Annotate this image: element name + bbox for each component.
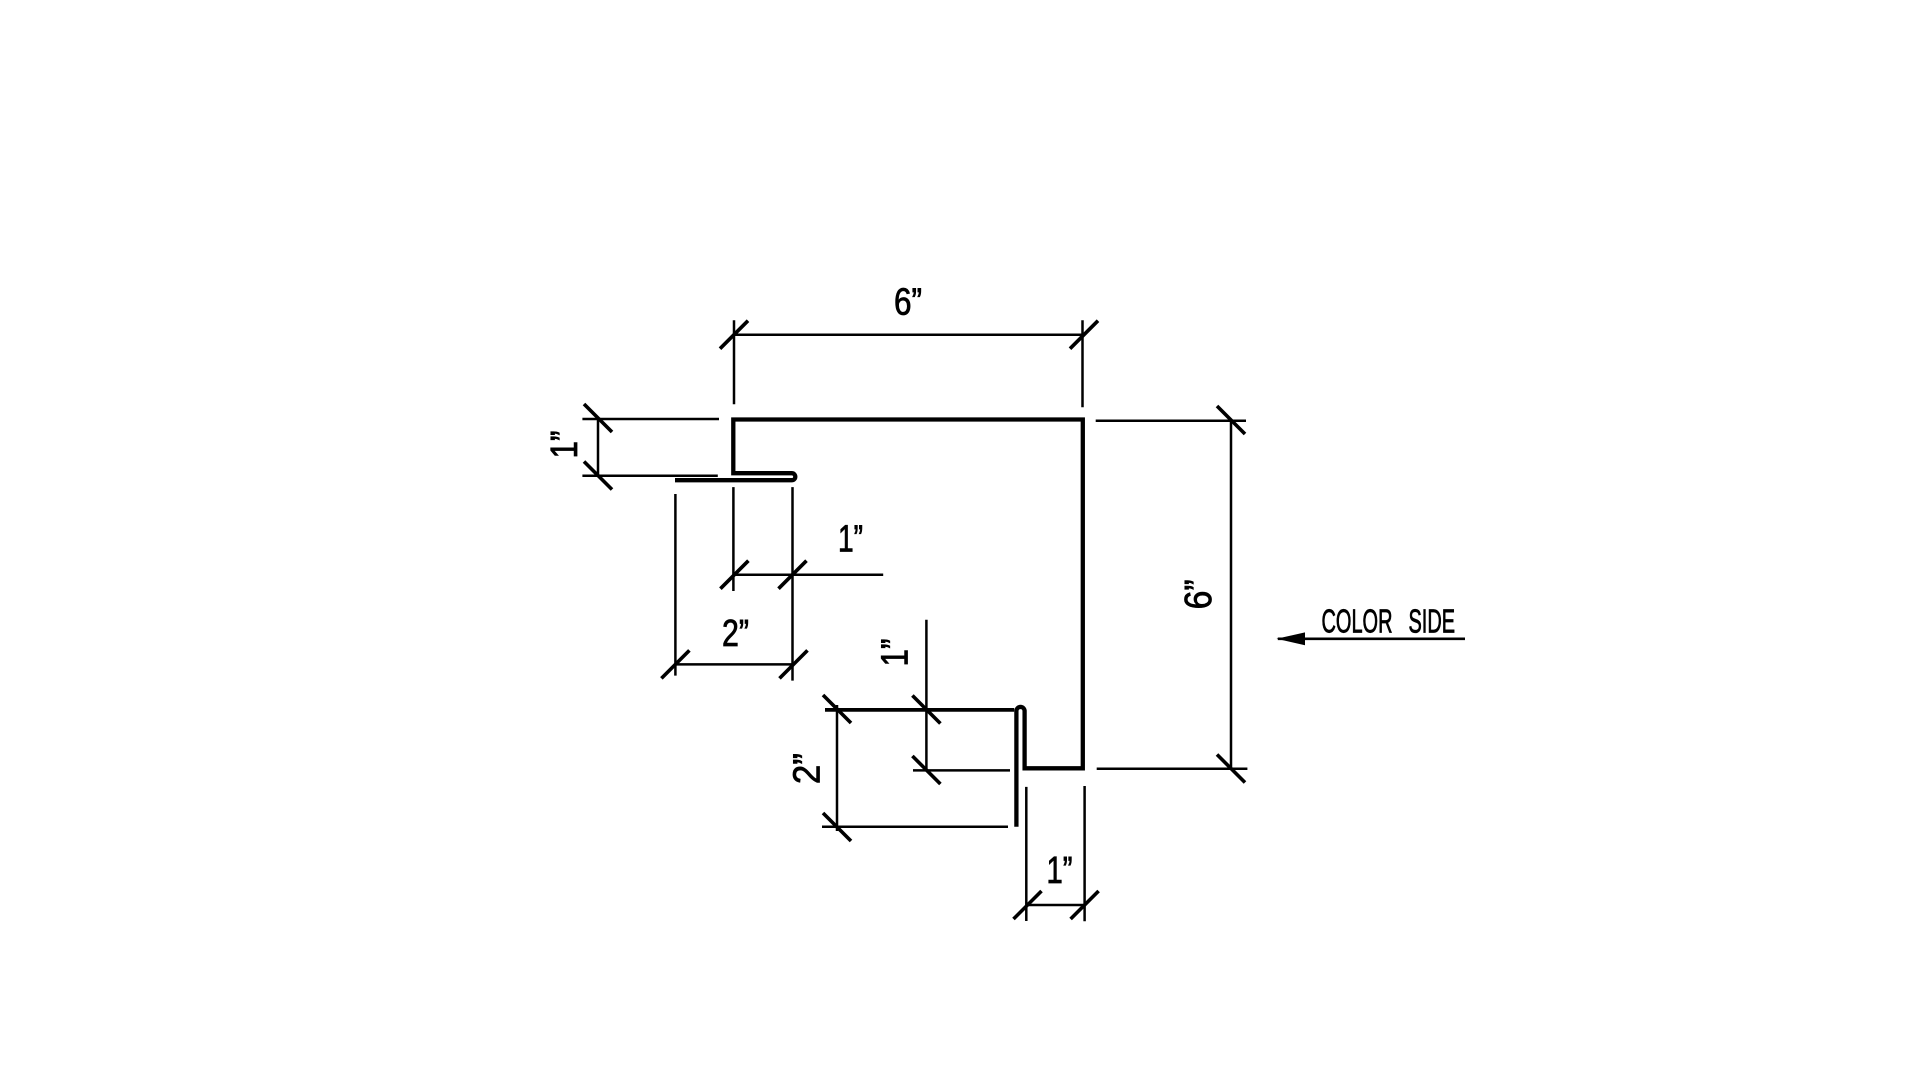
svg-text:1”: 1”: [875, 639, 917, 667]
svg-text:1”: 1”: [1047, 850, 1073, 892]
svg-text:2”: 2”: [722, 613, 749, 655]
svg-text:COLOR: COLOR: [1322, 603, 1393, 640]
svg-text:6”: 6”: [894, 282, 922, 324]
svg-text:6”: 6”: [1178, 579, 1220, 609]
svg-text:SIDE: SIDE: [1409, 603, 1456, 640]
svg-text:1”: 1”: [544, 431, 586, 459]
svg-text:1”: 1”: [838, 518, 863, 560]
svg-text:2”: 2”: [787, 753, 829, 784]
